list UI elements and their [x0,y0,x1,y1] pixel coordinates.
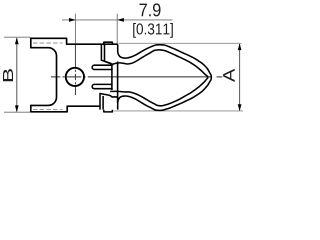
clip back wall right line [117,62,119,104]
bracket top flange left edge [30,38,32,49]
bracket top flange top edge with step and tab line [31,38,118,44]
mounting hole [66,68,84,86]
dimension A line [239,44,241,110]
centerline horizontal (fuse axis) [51,76,222,78]
clip top mounting tab [92,65,112,69]
dimension B bottom arrow [15,105,19,112]
clip spring arms outer edge [118,44,212,110]
bracket top flange hidden fold line [33,42,63,44]
dimension 7.9 left arrow [69,18,76,22]
label A [223,69,235,82]
bracket inner profile (flange bottom, web, bottom flange top) [31,48,57,106]
clip spring arms inner edge [110,50,208,106]
clip bottom mounting tab [92,84,112,88]
clip bottom end-stop block inner edge [102,96,104,110]
extension line A top [119,42,242,44]
extension line B bottom [4,111,31,113]
extension line A bottom [114,110,243,112]
extension line right (clip face) [116,14,118,45]
clip bottom end-stop block outer edge [100,94,118,110]
bracket bottom flange left edge [30,105,32,112]
label B [3,69,13,81]
extension line left (hole centerline) [74,14,76,45]
clip top locating bump [104,42,113,44]
dimension 7.9 line [62,19,172,21]
label 7.9 [140,3,161,16]
bracket bottom flange hidden fold line [33,109,63,111]
label [0.311] [133,23,173,38]
dimension B top arrow [15,37,19,44]
dimension A bottom arrow [238,104,242,111]
dimension 7.9 right arrow [117,18,124,22]
dimension B line [16,38,18,111]
clip back wall left line [111,64,113,90]
dimension A top arrow [238,43,242,50]
clip top end-stop block inner edge [105,44,114,64]
centerline vertical (hole axis) [74,44,76,95]
clip top end-stop block outer edge [101,44,111,63]
clip bottom locating bump [104,110,113,112]
extension line B top [4,36,31,38]
bracket bottom flange bottom edge with step and tab line [31,106,100,112]
